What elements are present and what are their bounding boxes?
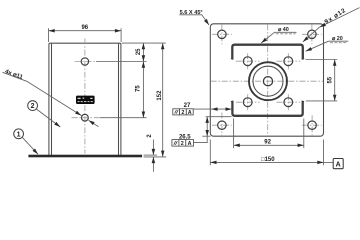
central bore	[263, 77, 272, 86]
dimension 92 extension right	[303, 119, 305, 149]
svg-text:27: 27	[184, 103, 191, 109]
svg-text:□150: □150	[261, 157, 275, 163]
top hole centerline	[75, 61, 97, 63]
svg-text:25: 25	[136, 48, 142, 55]
side hole top-left	[236, 53, 260, 69]
bottom bracket right foot hook	[302, 100, 305, 103]
lower hole centerline	[72, 117, 101, 119]
callout dia20 small marks	[330, 42, 346, 44]
dimension 26.5 extension top	[206, 116, 232, 118]
top bracket left foot hook	[231, 58, 234, 61]
dimension 55 extension top	[306, 59, 338, 61]
top hole	[81, 58, 88, 65]
dimension 96 line	[49, 30, 122, 32]
top bracket right foot hook	[302, 58, 305, 61]
balloon 2 leader	[36, 109, 60, 127]
top view horizontal centerline	[211, 80, 323, 82]
dimension sq150 extension left	[209, 140, 211, 166]
front view column inner right wall	[118, 44, 120, 156]
dimension 55 line	[334, 60, 336, 101]
callout 4x dia11 far arrow	[89, 120, 99, 126]
svg-text:1: 1	[17, 131, 21, 138]
bottom bracket left foot hook	[231, 100, 234, 103]
dimension sq150 extension right	[323, 140, 325, 166]
lower hole	[82, 114, 89, 121]
dimension 92 line	[234, 144, 304, 146]
balloon 2	[28, 101, 38, 111]
dimension 92 extension left	[233, 119, 235, 149]
callout dia40 leader	[261, 32, 274, 43]
front view column inner left wall	[51, 44, 53, 156]
corner hole top-right	[302, 24, 322, 44]
corner hole bottom-left	[212, 113, 232, 138]
dimension 25 line	[142, 43, 144, 61]
svg-text:152: 152	[157, 90, 163, 101]
svg-text:75: 75	[136, 85, 142, 92]
datum A connector	[324, 162, 334, 164]
top view vertical centerline	[267, 24, 269, 136]
svg-text:92: 92	[264, 140, 271, 146]
callout 9x dia12 leader	[320, 8, 360, 28]
extension line top edge right	[122, 42, 166, 44]
svg-text:2: 2	[147, 134, 153, 138]
svg-text:2: 2	[181, 141, 184, 147]
svg-text:A: A	[188, 110, 192, 116]
extension line lower hole right	[100, 117, 147, 119]
dimension 152 line	[162, 43, 164, 157]
extension line base plate bottom right	[144, 156, 167, 158]
extension line base plate top right	[144, 154, 157, 156]
dimension 26.5 leader to frame	[194, 136, 208, 142]
callout dia20 leader	[306, 41, 329, 51]
callout 9x dia12 leader continuation	[303, 27, 320, 42]
central middle circle	[253, 66, 283, 96]
datum A box	[333, 159, 343, 169]
svg-text:55: 55	[327, 76, 333, 83]
black label plate	[76, 96, 95, 104]
callout 4x dia11 leader	[3, 72, 82, 115]
bottom bracket profile	[232, 101, 302, 116]
corner hole top-left	[212, 24, 232, 44]
top view plate outline	[210, 24, 323, 136]
label plate white marks	[78, 98, 93, 103]
side hole bottom-left	[236, 94, 260, 110]
dimension 75 line	[142, 62, 144, 118]
callout dia40 underline	[275, 31, 297, 33]
base plate	[29, 155, 142, 157]
balloon 1	[14, 129, 24, 139]
svg-text:96: 96	[81, 25, 88, 31]
callout dia20 underline	[329, 40, 349, 42]
front view column outer left wall	[49, 43, 121, 155]
dimension 2 lower line	[152, 157, 154, 172]
side hole bottom-right	[277, 94, 301, 110]
extension line top hole right	[96, 61, 147, 63]
svg-text:9x ⌀12: 9x ⌀12	[323, 7, 347, 26]
dimension 26.5 line	[206, 117, 208, 137]
central outer circle	[249, 62, 287, 100]
front view vertical centerline	[84, 39, 86, 154]
svg-text:A: A	[336, 161, 341, 168]
chamfer callout leader	[179, 15, 209, 25]
dimension 26.5 extension bottom	[202, 135, 210, 137]
dimension 2 upper line	[152, 140, 154, 156]
feature frame parallel 2 A upper	[173, 109, 193, 116]
feature frame parallel 2 A lower	[172, 140, 194, 148]
dimension 96 extension lines	[48, 28, 50, 42]
side hole top-right	[277, 53, 301, 69]
dimension 55 extension bottom	[306, 100, 337, 102]
svg-text:2: 2	[31, 103, 35, 110]
dimension 27 line	[193, 108, 211, 110]
corner hole bottom-right	[302, 115, 322, 135]
balloon 1 leader	[22, 137, 38, 154]
callout dia40 small marks	[276, 33, 296, 35]
top bracket profile	[232, 45, 302, 60]
dimension sq150 line	[210, 161, 323, 163]
svg-text:2: 2	[181, 110, 184, 116]
svg-text:A: A	[188, 141, 192, 147]
